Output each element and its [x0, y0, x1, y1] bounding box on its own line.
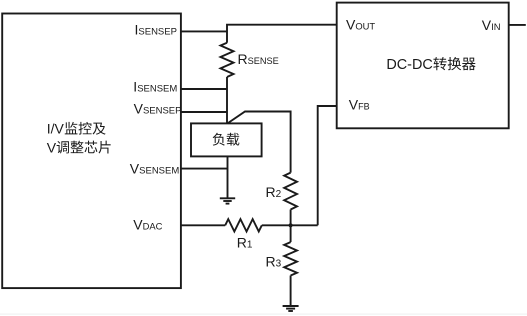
- wire: ISENSEM pin stub: [181, 88, 227, 90]
- wire: VIN pin stub: [509, 24, 526, 26]
- svg-text:DC-DC: DC-DC: [386, 57, 432, 73]
- DC-DC label CJK: 转换器: [433, 57, 475, 70]
- svg-text:I/V: I/V: [47, 121, 65, 137]
- wire: VFB pin down to node A: [318, 106, 337, 225]
- chip label CJK line1: 监控及: [65, 122, 106, 135]
- wire: R3 bottom to ground: [290, 276, 292, 306]
- wire: R2 bottom through node A to R3 top: [290, 210, 292, 243]
- wire: load node tap to R2 top (diagonal): [228, 112, 291, 173]
- ground (below load): [220, 198, 235, 203]
- wire: VDAC pin to R1 left: [181, 224, 225, 226]
- DC-DC converter U2: [337, 3, 509, 129]
- resistor R3: [284, 242, 297, 275]
- resistor R_SENSE: [221, 43, 234, 77]
- node A junction dot: [289, 223, 293, 227]
- faint bottom artifact line: [0, 313, 527, 314]
- wire: VSENSEM pin stub: [181, 168, 228, 170]
- ground (below R3): [283, 306, 299, 311]
- wire: ISENSEP pin stub: [181, 30, 227, 32]
- wire: R1 right through node A to VFB column: [262, 224, 318, 226]
- resistor R1: [225, 219, 262, 231]
- wire: VOUT to RSENSE top: [227, 25, 337, 43]
- chip U1: I/V monitor & V adjust: [2, 14, 181, 289]
- wire: load bottom to ground: [227, 156, 229, 197]
- resistor R2: [284, 173, 297, 210]
- load (负载) box: [191, 123, 262, 156]
- wire: VSENSEP pin stub: [181, 111, 227, 113]
- load label: 负载: [213, 133, 240, 146]
- chip label CJK line2: 调整芯片: [57, 141, 111, 154]
- wire: RSENSE bottom to load top: [226, 77, 228, 123]
- svg-text:V: V: [47, 139, 57, 155]
